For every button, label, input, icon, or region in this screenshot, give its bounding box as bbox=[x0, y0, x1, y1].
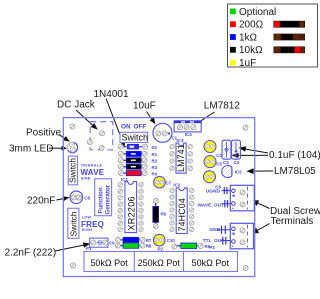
svg-text:R7: R7 bbox=[146, 238, 152, 243]
legend resistor image 200ohm bbox=[274, 21, 306, 28]
legend resistor image 10kohm bbox=[274, 46, 306, 53]
arrow 0.1uF to C4 bbox=[239, 146, 268, 153]
svg-text:Function: Function bbox=[98, 187, 105, 213]
DC jack pin 1 bbox=[100, 131, 105, 136]
svg-text:UGND: UGND bbox=[206, 188, 221, 194]
svg-text:IN: IN bbox=[232, 194, 236, 198]
svg-text:R1: R1 bbox=[152, 152, 158, 157]
svg-text:LM78L05: LM78L05 bbox=[274, 166, 316, 177]
diode D1 pad left bbox=[118, 144, 123, 149]
resistor R2 (10k black) bbox=[126, 158, 141, 163]
capacitor C5 (1uF) bbox=[204, 156, 216, 168]
svg-text:1N4001: 1N4001 bbox=[94, 89, 129, 100]
svg-text:HIGH: HIGH bbox=[82, 228, 93, 232]
svg-text:P1: P1 bbox=[86, 246, 92, 251]
IC3 pins right bbox=[188, 144, 192, 148]
power switch S1 bbox=[120, 132, 148, 142]
mounting hole top-right bbox=[243, 125, 248, 130]
svg-text:R3: R3 bbox=[152, 165, 158, 170]
arrow 220nF bbox=[57, 196, 70, 201]
pot divider 2 bbox=[183, 252, 185, 272]
arrow LM78L05 bbox=[246, 168, 273, 174]
capacitor C7 (1uF) bbox=[154, 176, 166, 188]
svg-text:P2: P2 bbox=[158, 246, 164, 251]
svg-text:50kΩ Pot: 50kΩ Pot bbox=[90, 258, 128, 268]
IC1 pins right bbox=[139, 183, 143, 187]
IC4 pin 2 bbox=[184, 125, 189, 130]
IC1 XR2206 body bbox=[125, 182, 137, 233]
svg-text:C9: C9 bbox=[109, 241, 115, 246]
resistor R1 (1k blue) bbox=[126, 151, 141, 156]
mounting hole bottom-left bbox=[71, 263, 76, 268]
diode D1 bbox=[122, 144, 145, 149]
legend swatch 10kohm bbox=[230, 47, 236, 53]
svg-text:C8: C8 bbox=[84, 195, 90, 200]
capacitor C1 10uF bbox=[153, 123, 172, 142]
diode D1 pad right bbox=[143, 144, 148, 149]
terminal block J1 bbox=[230, 185, 254, 211]
svg-text:Switch: Switch bbox=[69, 211, 79, 236]
capacitor C9 footprint (2.2nF) bbox=[90, 238, 108, 247]
net GND bbox=[209, 226, 230, 234]
svg-text:IN: IN bbox=[232, 232, 236, 236]
IC2 pins left bbox=[170, 188, 174, 192]
IC4 pin 3 bbox=[191, 125, 196, 130]
arrow DC Jack bbox=[76, 110, 98, 130]
LED D (3mm) bbox=[67, 142, 77, 152]
svg-text:Switch: Switch bbox=[122, 133, 149, 143]
DC jack pin 3 bbox=[99, 145, 104, 150]
legend resistor image 1kohm bbox=[274, 34, 306, 41]
arrow Positive bbox=[59, 135, 70, 142]
svg-text:IC2: IC2 bbox=[173, 183, 181, 188]
C9 pads bbox=[91, 240, 96, 245]
svg-text:250kΩ Pot: 250kΩ Pot bbox=[138, 258, 181, 268]
DC jack pin 2 bbox=[87, 140, 92, 145]
svg-text:R8: R8 bbox=[146, 243, 152, 248]
legend swatch Optional bbox=[230, 9, 236, 15]
resistor R4 (200 red) bbox=[126, 171, 141, 176]
resistor R6 pad bottom bbox=[153, 224, 158, 229]
DC jack J bbox=[90, 122, 113, 150]
pot divider 1 bbox=[133, 252, 135, 272]
svg-text:Positive: Positive bbox=[26, 128, 61, 139]
svg-text:C4: C4 bbox=[234, 160, 240, 165]
svg-text:Switch: Switch bbox=[68, 158, 78, 183]
resistor R4 pads bbox=[119, 171, 124, 176]
svg-text:R4: R4 bbox=[152, 171, 158, 176]
resistor R9 (optional green) bbox=[181, 243, 197, 249]
IC1 pins left bbox=[118, 183, 122, 187]
svg-text:Optional: Optional bbox=[239, 7, 276, 18]
resistor R3 (10k black) bbox=[126, 164, 141, 169]
resistor R7 (1k blue) bbox=[123, 237, 139, 242]
silk text Function Generator bbox=[95, 179, 112, 216]
legend box bbox=[228, 4, 318, 67]
svg-text:C3: C3 bbox=[223, 160, 229, 165]
capacitor C8 (220nF) bbox=[70, 191, 83, 204]
net UGND bbox=[206, 187, 231, 194]
svg-text:TRIANGLE: TRIANGLE bbox=[81, 163, 103, 167]
IC4 pin 1 bbox=[178, 125, 183, 130]
resistor R3 pads bbox=[119, 164, 124, 169]
R9 pads bbox=[172, 244, 177, 249]
svg-text:+: + bbox=[232, 207, 234, 211]
svg-text:IC5: IC5 bbox=[235, 170, 242, 175]
svg-text:+: + bbox=[232, 245, 234, 249]
resistor R2 pads bbox=[119, 158, 124, 163]
arrow to terminal J1 bbox=[251, 200, 270, 209]
mounting hole bottom-right bbox=[243, 266, 248, 271]
svg-text:0.1uF (104): 0.1uF (104) bbox=[269, 150, 320, 161]
svg-text:R6: R6 bbox=[161, 212, 167, 217]
svg-text:50kΩ Pot: 50kΩ Pot bbox=[192, 258, 230, 268]
IC3 pins left bbox=[170, 144, 174, 148]
svg-text:220nF: 220nF bbox=[27, 196, 55, 207]
svg-text:1uF: 1uF bbox=[239, 58, 256, 69]
R7 pads bbox=[116, 237, 121, 242]
arrow 0.1uF to C3 bbox=[231, 153, 268, 158]
svg-text:1kΩ: 1kΩ bbox=[239, 32, 258, 43]
terminal J2 holes bbox=[240, 228, 245, 233]
svg-text:3mm LED: 3mm LED bbox=[9, 144, 53, 155]
resistor R8 (optional green) bbox=[123, 243, 139, 248]
net WAVE_OUT bbox=[198, 200, 231, 209]
legend swatch 200ohm bbox=[230, 21, 236, 27]
svg-text:10kΩ: 10kΩ bbox=[239, 45, 263, 56]
svg-text:ON: ON bbox=[121, 124, 131, 131]
board outline bbox=[63, 118, 254, 277]
capacitor C1 pads bbox=[156, 131, 161, 136]
svg-text:R2: R2 bbox=[152, 159, 158, 164]
svg-text:P3: P3 bbox=[209, 245, 215, 250]
resistor R6 pad top bbox=[153, 199, 158, 204]
svg-text:LOW: LOW bbox=[82, 216, 92, 220]
terminal J1 holes bbox=[240, 190, 245, 195]
pot area box bbox=[84, 252, 238, 272]
svg-text:LM741: LM741 bbox=[176, 144, 186, 172]
svg-text:200Ω: 200Ω bbox=[239, 20, 264, 31]
freq switch S3 bbox=[68, 208, 79, 238]
capacitor C3 footprint bbox=[222, 140, 231, 159]
capacitor C6 (1uF) bbox=[204, 171, 216, 183]
regulator IC5 LM78L05 TO-92 bbox=[222, 166, 232, 178]
capacitor C4 footprint bbox=[232, 140, 241, 159]
op-amp IC3 LM741 body bbox=[176, 143, 186, 173]
svg-text:LM7812: LM7812 bbox=[204, 101, 241, 112]
arrow 2.2nF bbox=[55, 242, 90, 251]
svg-text:C7: C7 bbox=[166, 181, 172, 186]
svg-text:C10: C10 bbox=[167, 238, 176, 243]
arrow LM7812 bbox=[193, 112, 215, 126]
svg-text:SINE: SINE bbox=[81, 176, 91, 180]
regulator IC4 LM7812 bbox=[174, 121, 201, 132]
capacitor C10 (1uF) bbox=[154, 234, 166, 246]
svg-text:74HC04: 74HC04 bbox=[177, 198, 187, 231]
svg-text:2.2nF (222): 2.2nF (222) bbox=[5, 248, 57, 259]
terminal block J2 bbox=[230, 223, 253, 249]
svg-text:D1: D1 bbox=[152, 145, 158, 150]
legend swatch 1kohm bbox=[230, 34, 236, 40]
resistor R1 pads bbox=[119, 151, 124, 156]
IC2 74HC04 body bbox=[176, 188, 187, 234]
svg-text:10uF: 10uF bbox=[133, 101, 156, 112]
svg-text:IC4: IC4 bbox=[185, 132, 192, 137]
svg-text:IC3: IC3 bbox=[177, 138, 185, 143]
svg-text:Generator: Generator bbox=[105, 184, 112, 214]
net TTL_OUT bbox=[203, 237, 231, 245]
arrow 1N4001 bbox=[106, 99, 125, 148]
svg-text:Terminals: Terminals bbox=[271, 216, 314, 227]
wave switch S2 bbox=[68, 156, 78, 185]
arrow 10uF bbox=[147, 112, 156, 125]
svg-text:XR2206: XR2206 bbox=[126, 196, 136, 230]
svg-text:OFF: OFF bbox=[134, 124, 147, 131]
IC2 pins right bbox=[190, 188, 194, 192]
svg-text:WAVE_OUT: WAVE_OUT bbox=[198, 203, 225, 209]
resistor R6 (10k black vertical) bbox=[153, 203, 159, 225]
mounting hole top-left bbox=[70, 124, 75, 129]
svg-text:C5: C5 bbox=[216, 161, 222, 166]
R8 pads bbox=[116, 243, 121, 248]
arrow to terminal J2 bbox=[251, 224, 270, 235]
capacitor C2 (1uF) bbox=[204, 141, 216, 153]
legend swatch 1uF bbox=[230, 60, 236, 66]
arrow 3mm LED bbox=[49, 146, 67, 151]
svg-text:DC Jack: DC Jack bbox=[57, 100, 96, 111]
capacitor C1 plus mark bbox=[168, 133, 170, 135]
